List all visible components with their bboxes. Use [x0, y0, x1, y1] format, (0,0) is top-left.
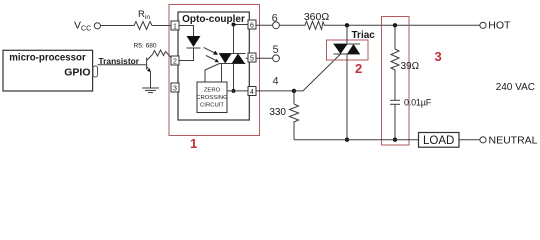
svg-text:5: 5	[272, 44, 278, 56]
svg-text:R5: 680: R5: 680	[134, 43, 157, 50]
snubber red outline box	[382, 17, 410, 146]
svg-text:VCC: VCC	[74, 20, 91, 33]
resistor 360 ohm	[304, 21, 327, 29]
junction on hot rail	[393, 23, 397, 27]
node 6 terminal	[273, 22, 280, 29]
capacitor 0.01uF	[390, 99, 400, 101]
resistor Rin	[132, 22, 154, 30]
wire Rin to pin1	[154, 25, 171, 27]
pin 6	[248, 20, 256, 29]
svg-text:240 VAC: 240 VAC	[496, 82, 535, 93]
light arrow a	[204, 48, 216, 54]
junction on hot rail	[345, 23, 349, 27]
wire LED to pin2	[179, 48, 194, 61]
node NEUTRAL terminal	[480, 137, 486, 143]
photo-triac	[219, 53, 246, 55]
svg-text:HOT: HOT	[488, 20, 511, 32]
svg-text:330: 330	[269, 107, 286, 118]
LOAD box	[419, 133, 460, 148]
wire R5 to pin2	[167, 53, 172, 58]
pin 1	[171, 21, 179, 30]
wire to 39 ohm	[394, 25, 396, 49]
emitter with arrow	[147, 67, 150, 71]
zero crossing circuit box	[197, 82, 227, 113]
junction	[232, 23, 236, 27]
wire 360 ohm to HOT	[326, 24, 480, 26]
wire 39 ohm to cap	[394, 70, 396, 100]
wire LOAD to NEUTRAL	[459, 139, 480, 141]
wire ZCC to pin4	[227, 90, 248, 92]
gate wire to triac	[294, 54, 341, 91]
svg-text:39Ω: 39Ω	[401, 61, 420, 72]
svg-text:Opto-coupler: Opto-coupler	[182, 14, 245, 25]
pin 4	[248, 87, 256, 96]
svg-text:3: 3	[435, 49, 442, 64]
light arrow b	[206, 56, 217, 61]
svg-text:ZERO: ZERO	[204, 88, 221, 94]
wire GPIO to base	[98, 64, 147, 66]
node 5 terminal	[273, 55, 280, 62]
resistor 330	[290, 104, 299, 124]
wire pin6 to terminal	[256, 24, 273, 26]
collector diagonal	[147, 55, 153, 61]
Vcc terminal circle	[94, 23, 100, 29]
svg-text:CROSSING: CROSSING	[196, 95, 228, 101]
wire Vcc to Rin	[100, 25, 132, 27]
GPIO pin tab	[93, 66, 98, 77]
svg-text:LOAD: LOAD	[423, 135, 454, 147]
wire photo-triac down	[233, 64, 235, 91]
junction on bottom rail	[345, 138, 349, 142]
wire to 330	[293, 91, 295, 104]
svg-text:GPIO: GPIO	[64, 67, 90, 79]
junction	[232, 89, 236, 93]
wire down to photo-triac	[233, 25, 235, 54]
opto-coupler red outline box	[169, 5, 260, 136]
wire to 360 ohm	[279, 24, 303, 26]
wire pin6 internal	[234, 24, 249, 26]
pin 5	[248, 53, 256, 62]
wire 330 to bottom rail	[293, 124, 295, 140]
wire photo-triac MT to zero-crossing circuit	[221, 64, 223, 83]
opto-coupler IC body	[178, 12, 249, 120]
svg-text:3: 3	[173, 86, 177, 93]
node HOT terminal	[480, 22, 486, 28]
svg-text:5: 5	[250, 56, 254, 63]
ground	[142, 87, 159, 89]
svg-text:1: 1	[190, 136, 197, 151]
wire photo-triac to pin5	[246, 57, 249, 59]
resistor R5	[153, 50, 167, 56]
svg-text:6: 6	[272, 13, 278, 25]
svg-text:4: 4	[272, 76, 278, 88]
pin 3	[171, 83, 179, 92]
svg-text:micro-processor: micro-processor	[9, 52, 86, 63]
svg-text:4: 4	[250, 89, 254, 96]
bottom rail wire	[294, 139, 419, 141]
pin 2	[171, 56, 179, 65]
transistor Q1	[146, 58, 148, 70]
wire pin4 out	[256, 90, 294, 92]
junction node	[292, 89, 296, 93]
resistor 39 ohm	[391, 49, 399, 70]
micro-processor box	[3, 50, 93, 91]
wire rail to triac	[346, 25, 348, 44]
wire pin5 stub	[256, 57, 273, 59]
svg-text:6: 6	[250, 23, 254, 30]
svg-text:360Ω: 360Ω	[304, 11, 330, 23]
svg-text:0.01µF: 0.01µF	[404, 97, 432, 107]
gate lead to zero-crossing circuit	[205, 64, 220, 83]
svg-text:1: 1	[173, 24, 177, 31]
wire triac to bottom rail	[346, 54, 348, 140]
svg-text:2: 2	[355, 61, 362, 76]
triac red outline box	[327, 40, 369, 60]
svg-text:2: 2	[173, 59, 177, 66]
svg-text:NEUTRAL: NEUTRAL	[489, 135, 538, 147]
wire cap to bottom rail	[394, 104, 396, 139]
wire pin1 to LED	[179, 26, 194, 37]
triac T1	[334, 43, 361, 45]
junction on bottom rail	[393, 138, 397, 142]
LED D1	[187, 36, 201, 47]
svg-text:Rin: Rin	[138, 9, 150, 21]
svg-text:Triac: Triac	[352, 30, 376, 41]
svg-text:CIRCUIT: CIRCUIT	[200, 102, 224, 108]
